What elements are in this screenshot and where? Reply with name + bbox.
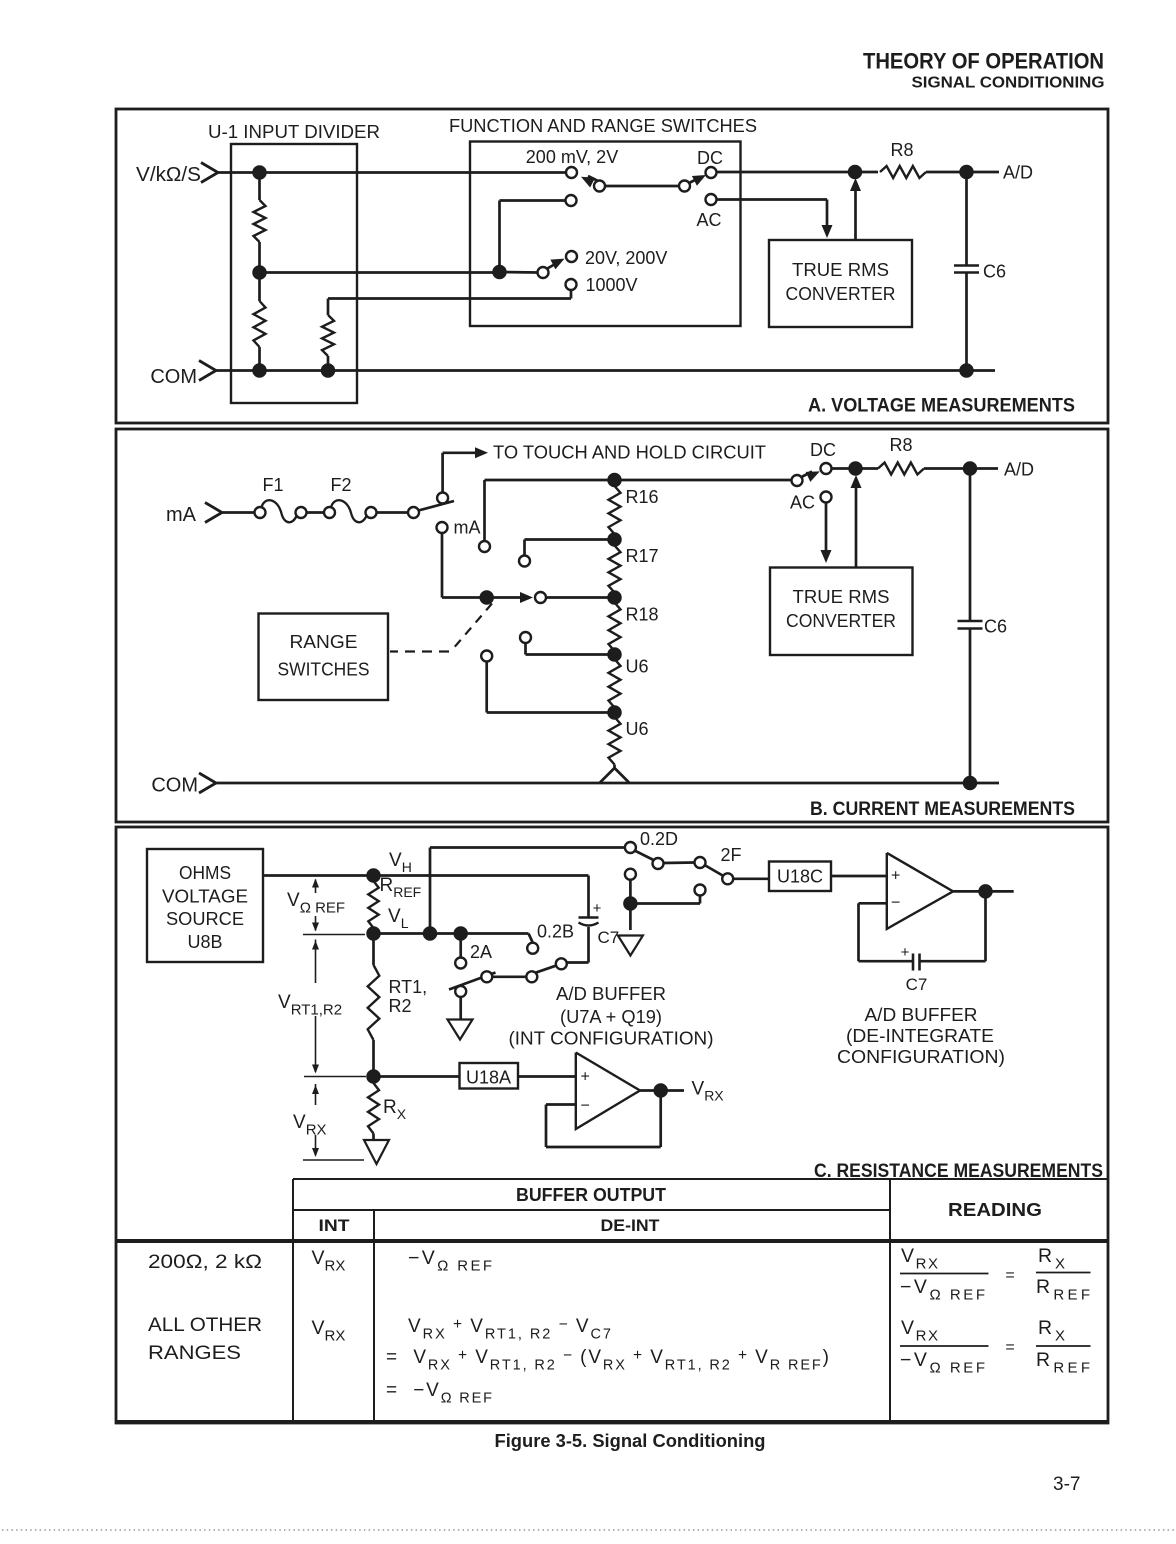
capacitor C7 feedback xyxy=(901,944,920,971)
label SOURCE xyxy=(166,909,244,929)
label RREF xyxy=(380,875,422,900)
row2 INT value xyxy=(312,1317,346,1345)
svg-text:BUFFER OUTPUT: BUFFER OUTPUT xyxy=(516,1185,666,1205)
svg-text:F2: F2 xyxy=(330,475,351,495)
svg-text:C7: C7 xyxy=(906,975,928,994)
node R8 left A xyxy=(849,166,862,179)
svg-text:ALL OTHER: ALL OTHER xyxy=(148,1315,262,1336)
node VL xyxy=(367,927,380,940)
label AC A xyxy=(696,210,721,230)
label DC A xyxy=(697,148,723,168)
table col READING border xyxy=(889,1179,891,1422)
label VRX out xyxy=(692,1079,725,1104)
label TO TOUCH AND HOLD CIRCUIT xyxy=(493,443,766,463)
wire pole link C xyxy=(664,861,695,864)
wire lower contact xyxy=(500,201,566,267)
svg-text:+: + xyxy=(891,868,900,885)
op-amp U18A stage xyxy=(576,1053,640,1130)
node R16-R17 xyxy=(608,533,621,546)
svg-text:+: + xyxy=(593,900,602,917)
svg-text:R8: R8 xyxy=(890,140,913,160)
label R8 B xyxy=(889,435,912,455)
label C7 feedback xyxy=(906,975,928,994)
label CONFIGURATION xyxy=(837,1047,1005,1067)
label R17 xyxy=(626,546,659,566)
svg-text:RT1,: RT1, xyxy=(389,977,428,997)
contact 1000V xyxy=(566,279,577,290)
svg-text:−: − xyxy=(581,1098,590,1115)
label U18C xyxy=(777,867,823,887)
svg-text:VOLTAGE: VOLTAGE xyxy=(162,887,248,907)
svg-text:INT: INT xyxy=(319,1216,351,1235)
resistor U6 upper xyxy=(609,659,621,708)
wire contact A drop xyxy=(483,480,486,541)
wire VH xyxy=(263,874,589,877)
node U1 mid tap xyxy=(253,266,266,279)
svg-text:R8: R8 xyxy=(889,435,912,455)
table header rule xyxy=(293,1209,890,1211)
node A/D B xyxy=(964,462,977,475)
label R8 A xyxy=(890,140,913,160)
svg-text:OHMS: OHMS xyxy=(179,863,231,883)
node R17-R18 xyxy=(608,591,621,604)
fuse F2 xyxy=(324,500,377,522)
svg-text:SIGNAL CONDITIONING: SIGNAL CONDITIONING xyxy=(912,75,1105,92)
svg-text:mA: mA xyxy=(454,518,481,538)
wire DC out B xyxy=(832,467,879,470)
label VH xyxy=(389,850,412,875)
label A/D BUFFER deint xyxy=(865,1005,978,1025)
blade 2F xyxy=(705,865,724,876)
label mA contact xyxy=(454,518,481,538)
true rms converter box A xyxy=(769,240,912,327)
label 2A xyxy=(470,942,492,962)
arrow into converter B xyxy=(821,550,832,563)
contact pos D xyxy=(481,651,492,662)
contact mA range xyxy=(437,522,448,533)
fuse F1 xyxy=(255,500,307,522)
label V RT1 R2 xyxy=(278,992,342,1019)
svg-text:C6: C6 xyxy=(983,262,1006,282)
node range tap xyxy=(493,266,506,279)
arrow to DC wire A xyxy=(850,178,861,240)
node VL tap2 xyxy=(454,927,467,940)
label FUNCTION AND RANGE SWITCHES xyxy=(449,116,757,136)
wire int E gnd xyxy=(459,997,462,1020)
contact int B xyxy=(481,971,492,982)
capacitor C6 A xyxy=(954,172,979,371)
wire COM B xyxy=(216,782,999,785)
U18C box xyxy=(769,862,831,892)
svg-text:200Ω, 2 kΩ: 200Ω, 2 kΩ xyxy=(148,1252,262,1273)
row2 range label xyxy=(148,1315,262,1364)
wiper circle B xyxy=(535,592,546,603)
contact int E xyxy=(455,986,466,997)
label SWITCHES xyxy=(278,660,370,680)
table heavy rule xyxy=(116,1239,1108,1243)
label RT1 xyxy=(389,977,428,997)
feedback loop C xyxy=(859,891,986,961)
perforation dots xyxy=(2,1529,1174,1531)
label F1 xyxy=(262,475,283,495)
svg-text:READING: READING xyxy=(948,1200,1042,1220)
wire RX gnd xyxy=(372,1134,375,1141)
svg-text:mA: mA xyxy=(166,504,197,526)
node COM right B xyxy=(964,777,977,790)
svg-text:R18: R18 xyxy=(626,605,659,625)
svg-text:U18A: U18A xyxy=(466,1068,511,1088)
dashed link range switches xyxy=(390,604,492,652)
U18A box xyxy=(460,1063,519,1089)
switch wiper S2 xyxy=(688,175,706,186)
blade int D xyxy=(527,964,562,976)
node 0.2D gnd xyxy=(624,897,637,910)
svg-text:FUNCTION AND RANGE SWITCHES: FUNCTION AND RANGE SWITCHES xyxy=(449,116,757,136)
svg-text:0.2D: 0.2D xyxy=(640,829,678,849)
wire A/D B xyxy=(924,467,998,470)
svg-text:2F: 2F xyxy=(720,845,741,865)
svg-text:Figure 3-5. Signal Conditionin: Figure 3-5. Signal Conditioning xyxy=(495,1431,766,1451)
label R2 xyxy=(389,996,412,1016)
label R16 xyxy=(626,487,659,507)
node COM left xyxy=(322,364,335,377)
wire U6 tap upper xyxy=(526,643,615,655)
wire F2 out xyxy=(377,511,409,514)
input mA chevron xyxy=(205,503,222,523)
svg-text:RANGE: RANGE xyxy=(290,632,358,652)
svg-text:0.2B: 0.2B xyxy=(537,922,574,942)
U1 input divider box xyxy=(231,144,357,403)
label A/D BUFFER int xyxy=(556,984,666,1004)
node ladder top xyxy=(608,474,621,487)
wire VL riser xyxy=(430,848,625,934)
pole S2 xyxy=(679,181,690,192)
wire V input xyxy=(218,171,566,174)
contact 0.2D xyxy=(625,842,636,853)
svg-text:(DE-INTEGRATE: (DE-INTEGRATE xyxy=(846,1026,994,1046)
label INT CONFIGURATION xyxy=(509,1029,714,1049)
svg-text:A/D: A/D xyxy=(1003,163,1033,183)
switch wiper S1 xyxy=(581,176,603,188)
wire node to U18A xyxy=(374,1075,460,1078)
section C title xyxy=(814,1161,1103,1182)
wire F1-F2 xyxy=(307,511,325,514)
blade current switch xyxy=(419,501,455,511)
arrow to DC wire B xyxy=(851,475,862,568)
wiper circle DC B xyxy=(792,475,803,486)
svg-text:U6: U6 xyxy=(626,719,649,739)
page header title xyxy=(863,49,1104,74)
node A/D A xyxy=(960,166,973,179)
svg-text:+: + xyxy=(901,944,910,961)
input COM chevron B xyxy=(199,773,216,793)
dim line V RX xyxy=(303,1084,364,1160)
svg-text:=: = xyxy=(1005,1339,1014,1356)
wire mA in xyxy=(222,511,255,514)
row1 INT value xyxy=(312,1247,346,1275)
wire range tap xyxy=(500,271,538,274)
op-amp U18C stage xyxy=(887,853,953,929)
node opamp C out xyxy=(979,885,992,898)
label VOLTAGE xyxy=(162,887,248,907)
label DC B xyxy=(810,440,836,460)
row1 DE-INT value xyxy=(408,1247,492,1275)
svg-text:AC: AC xyxy=(790,493,815,513)
row2 DE-INT line1 xyxy=(408,1316,611,1343)
svg-text:DC: DC xyxy=(810,440,836,460)
resistor RREF xyxy=(368,881,378,928)
svg-text:TRUE RMS: TRUE RMS xyxy=(793,587,890,607)
contact 200mV lower xyxy=(566,195,577,206)
svg-text:(U7A + Q19): (U7A + Q19) xyxy=(560,1007,662,1027)
svg-text:COM: COM xyxy=(151,775,198,797)
label C6 B xyxy=(984,617,1007,637)
svg-text:C6: C6 xyxy=(984,617,1007,637)
label U8B xyxy=(187,932,222,952)
label U6 lower xyxy=(626,719,649,739)
row1 reading fraction xyxy=(900,1245,1091,1304)
wiper arrow DC B xyxy=(801,471,820,482)
wire COM A xyxy=(216,369,995,372)
contact 2A xyxy=(455,958,466,969)
svg-text:20V, 200V: 20V, 200V xyxy=(585,248,667,268)
input COM label A xyxy=(150,366,197,388)
wire int D to C7 xyxy=(567,927,589,963)
svg-text:U6: U6 xyxy=(626,657,649,677)
resistor U1 right leg xyxy=(322,299,334,371)
label V RX dim xyxy=(293,1112,327,1139)
svg-text:SWITCHES: SWITCHES xyxy=(278,660,370,680)
svg-text:C7: C7 xyxy=(598,928,620,947)
svg-text:1000V: 1000V xyxy=(586,275,638,295)
pole sw1 C xyxy=(653,858,664,869)
svg-text:DC: DC xyxy=(697,148,723,168)
svg-text:B. CURRENT MEASUREMENTS: B. CURRENT MEASUREMENTS xyxy=(810,799,1075,820)
contact 0.2B xyxy=(527,943,538,954)
section C outer box xyxy=(116,827,1108,1423)
dim line V ohm ref xyxy=(303,879,365,935)
svg-text:2A: 2A xyxy=(470,942,492,962)
ground int E xyxy=(448,1020,473,1040)
page number xyxy=(1053,1474,1080,1495)
wire 2F to U18C xyxy=(733,877,769,880)
svg-text:A/D BUFFER: A/D BUFFER xyxy=(865,1005,978,1025)
section A title xyxy=(808,396,1075,417)
label CONVERTER A xyxy=(786,284,896,304)
contact int D xyxy=(556,958,567,969)
wire opamp A out xyxy=(640,1089,684,1092)
resistor R8 A xyxy=(880,166,926,178)
svg-text:V/kΩ/S: V/kΩ/S xyxy=(136,164,201,186)
node VH xyxy=(367,869,380,882)
label A/D B xyxy=(1004,460,1034,480)
label 2F xyxy=(720,845,741,865)
wire AC to converter A xyxy=(717,200,828,229)
label U-1 INPUT DIVIDER xyxy=(208,122,380,142)
pole S3 xyxy=(538,267,549,278)
svg-text:COM: COM xyxy=(150,366,197,388)
node VL tap1 xyxy=(424,927,437,940)
label V ohm ref xyxy=(287,890,345,917)
figure caption xyxy=(495,1431,766,1451)
wire R17 tap xyxy=(525,540,615,556)
svg-text:DE-INT: DE-INT xyxy=(601,1216,661,1235)
table top border xyxy=(293,1178,1108,1180)
capacitor C6 B xyxy=(958,469,983,784)
contact DC A xyxy=(706,167,717,178)
label INT xyxy=(319,1216,351,1235)
resistor R8 B xyxy=(878,463,924,475)
resistor U6 lower xyxy=(600,717,629,783)
resistor R17 xyxy=(609,546,621,593)
resistor R18 xyxy=(609,603,621,652)
wire opamp C out xyxy=(953,890,1014,893)
node R8 left B xyxy=(849,462,862,475)
contact 2F lower xyxy=(695,885,706,896)
label F2 xyxy=(330,475,351,495)
svg-text:R17: R17 xyxy=(626,546,659,566)
label TRUE RMS B xyxy=(793,587,890,607)
ground 0.2D xyxy=(618,936,643,956)
wire 0.2D lower xyxy=(629,880,632,930)
resistor U1 upper xyxy=(254,173,266,273)
ground RX xyxy=(364,1140,389,1164)
blade int B xyxy=(449,973,496,990)
label DE-INT xyxy=(601,1216,661,1235)
function range switch box xyxy=(470,142,741,327)
label U6 upper xyxy=(626,657,649,677)
wire U18C to opamp xyxy=(831,875,887,878)
svg-text:A/D BUFFER: A/D BUFFER xyxy=(556,984,666,1004)
node wiper B xyxy=(480,591,493,604)
contact 2F xyxy=(722,873,733,884)
section B title xyxy=(810,799,1075,820)
table col INT border xyxy=(373,1210,375,1422)
wire U6 tap lower xyxy=(487,662,615,713)
wire to touch hold xyxy=(443,453,480,493)
svg-text:CONVERTER: CONVERTER xyxy=(786,284,896,304)
contact 200mV xyxy=(566,167,577,178)
node R18-U6 xyxy=(608,648,621,661)
contact DC B xyxy=(821,463,832,474)
resistor R16 xyxy=(609,486,621,534)
input V/k&#937;/S label xyxy=(136,164,201,186)
input V/k&#937;/S chevron xyxy=(201,163,218,183)
label OHMS xyxy=(179,863,231,883)
switch wiper S3 xyxy=(547,259,565,270)
label BUFFER OUTPUT xyxy=(516,1185,666,1205)
pole current switch xyxy=(408,507,419,518)
label CONVERTER B xyxy=(786,611,896,631)
svg-text:CONVERTER: CONVERTER xyxy=(786,611,896,631)
node U1 bottom xyxy=(253,364,266,377)
label R18 xyxy=(626,605,659,625)
label 0.2D xyxy=(640,829,678,849)
svg-text:A. VOLTAGE MEASUREMENTS: A. VOLTAGE MEASUREMENTS xyxy=(808,396,1075,417)
label C6 A xyxy=(983,262,1006,282)
dim line V RT1 R2 xyxy=(304,940,366,1077)
label AC B xyxy=(790,493,815,513)
wire int BC xyxy=(492,975,526,978)
resistor U1 lower xyxy=(254,273,266,371)
label C7 int xyxy=(598,928,620,947)
node opamp A out xyxy=(654,1084,667,1097)
contact AC A xyxy=(706,194,717,205)
true rms converter box B xyxy=(770,568,913,656)
contact 0.2D lower xyxy=(625,869,636,880)
svg-text:200 mV, 2V: 200 mV, 2V xyxy=(526,147,618,167)
svg-text:−: − xyxy=(891,895,900,912)
label U7A Q19 xyxy=(560,1007,662,1027)
node RX top xyxy=(367,1070,380,1083)
label 0.2B xyxy=(537,922,574,942)
node V top xyxy=(253,166,266,179)
label 200 mV 2V xyxy=(526,147,618,167)
wire DC out A xyxy=(717,171,879,174)
contact AC B xyxy=(821,492,832,503)
svg-text:3-7: 3-7 xyxy=(1053,1474,1080,1495)
label 1000V xyxy=(586,275,638,295)
svg-text:R16: R16 xyxy=(626,487,659,507)
label A/D A xyxy=(1003,163,1033,183)
resistor RT1 R2 xyxy=(368,940,380,1077)
svg-text:CONFIGURATION): CONFIGURATION) xyxy=(837,1047,1005,1067)
row2 DE-INT line2 xyxy=(386,1347,829,1374)
label VL xyxy=(388,906,409,931)
capacitor C7 int xyxy=(579,876,602,926)
svg-text:THEORY OF OPERATION: THEORY OF OPERATION xyxy=(863,49,1104,74)
row1 range label xyxy=(148,1252,262,1273)
wire ladder top xyxy=(485,479,792,482)
row2 reading fraction xyxy=(900,1317,1091,1377)
node COM right A xyxy=(960,364,973,377)
label RX xyxy=(383,1097,407,1122)
svg-text:TRUE RMS: TRUE RMS xyxy=(792,260,889,280)
feedback loop A xyxy=(546,1091,661,1148)
contact touch-hold xyxy=(437,493,448,504)
label DE-INTEGRATE xyxy=(846,1026,994,1046)
row2 DE-INT line3 xyxy=(386,1380,492,1407)
label TRUE RMS A xyxy=(792,260,889,280)
section A outer box xyxy=(116,109,1108,423)
arrow touch hold xyxy=(475,447,488,458)
svg-text:U8B: U8B xyxy=(187,932,222,952)
label RANGE xyxy=(290,632,358,652)
wire AC down B xyxy=(825,503,828,551)
contact pos A xyxy=(479,541,490,552)
svg-text:RANGES: RANGES xyxy=(148,1343,241,1364)
wire VL xyxy=(374,934,533,943)
svg-text:R2: R2 xyxy=(389,996,412,1016)
input COM chevron A xyxy=(199,361,216,381)
svg-text:AC: AC xyxy=(696,210,721,230)
resistor RX xyxy=(368,1083,379,1134)
node U6-U6 xyxy=(608,706,621,719)
wire A/D A xyxy=(926,171,999,174)
wiper arrow B xyxy=(493,592,534,603)
svg-text:+: + xyxy=(581,1069,590,1086)
table left border xyxy=(292,1179,294,1422)
arrow into converter A xyxy=(822,225,833,238)
svg-text:F1: F1 xyxy=(262,475,283,495)
input mA label xyxy=(166,504,197,526)
svg-text:=: = xyxy=(1005,1267,1014,1284)
wire 2A drop xyxy=(459,934,462,958)
contact pos C xyxy=(520,632,531,643)
label U18A xyxy=(466,1068,511,1088)
svg-text:TO TOUCH AND HOLD CIRCUIT: TO TOUCH AND HOLD CIRCUIT xyxy=(493,443,766,463)
label READING xyxy=(948,1200,1042,1220)
